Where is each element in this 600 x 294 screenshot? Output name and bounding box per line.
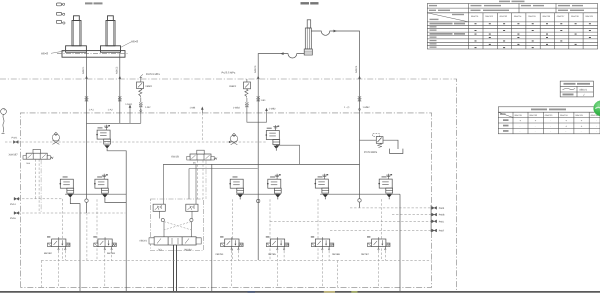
svg-text:P60L: P60L [439,220,445,223]
svg-text:00M/T05: 00M/T05 [528,15,535,18]
svg-text:-: - [550,130,551,133]
svg-text:1-A2: 1-A2 [108,109,114,112]
svg-text:6B/TB3: 6B/TB3 [107,252,116,255]
svg-text:1-MB: 1-MB [190,106,196,109]
svg-text:00M/T01: 00M/T01 [515,114,522,117]
svg-text:1-MB2: 1-MB2 [233,106,241,109]
svg-text:0B/7B7: 0B/7B7 [361,253,370,256]
svg-text:P4A1: P4A1 [12,136,19,139]
svg-text:X6B01: X6B01 [145,85,153,88]
svg-text:1-MB2: 1-MB2 [269,108,277,111]
svg-text:(B): (B) [193,161,196,164]
svg-text:00M/T06: 00M/T06 [543,15,550,18]
svg-text:A6×8: A6×8 [131,40,138,44]
svg-text:-: - [565,130,566,133]
svg-text:-: - [550,120,551,123]
svg-text:0B/7B5: 0B/7B5 [268,253,277,256]
svg-text:00M/T02: 00M/T02 [485,15,492,18]
svg-text:JY3: JY3 [158,248,163,251]
svg-text:-: - [581,130,582,133]
svg-text:00M/T02: 00M/T02 [530,114,537,117]
svg-text:-: - [596,120,597,123]
svg-text:A04C1: A04C1 [82,66,85,74]
svg-text:0B/7B4: 0B/7B4 [216,253,225,256]
svg-text:X6B02: X6B02 [229,85,237,88]
svg-text:00M/T05: 00M/T05 [575,114,582,117]
svg-text:P5A5: P5A5 [10,217,17,220]
svg-text:-: - [596,130,597,133]
svg-text:00M/T04: 00M/T04 [514,15,521,18]
svg-text:1 - (1: 1 - (1 [344,106,350,109]
svg-text:P605: P605 [439,207,445,210]
svg-text:00M/T04: 00M/T04 [560,114,567,117]
svg-text:A04C3: A04C3 [254,65,257,73]
svg-text:XW/1B: XW/1B [171,155,179,158]
svg-text:-: - [550,125,551,128]
svg-text:-: - [520,130,521,133]
svg-text:P607: P607 [439,230,445,233]
svg-text:A6×8: A6×8 [41,52,48,56]
svg-text:00M/T08: 00M/T08 [571,15,578,18]
svg-text:XW/1B7: XW/1B7 [9,153,19,156]
svg-text:P≤25.5 MPa: P≤25.5 MPa [222,72,236,75]
svg-text:P=25.5MPa: P=25.5MPa [364,151,378,154]
svg-text:00M/T09: 00M/T09 [585,15,592,18]
svg-text:1-M2: 1-M2 [145,106,151,109]
svg-text:1-MA1: 1-MA1 [125,103,133,106]
svg-text:-: - [596,125,597,128]
svg-text:0B/2B2: 0B/2B2 [184,248,193,251]
svg-text:P5A1: P5A1 [10,203,17,206]
svg-text:8B/1B2: 8B/1B2 [44,252,53,255]
svg-text:-: - [535,125,536,128]
svg-text:1-MB2: 1-MB2 [363,106,371,109]
svg-text:A04C4: A04C4 [355,65,358,73]
svg-text:A04C2: A04C2 [116,66,119,74]
svg-text:P60B: P60B [439,214,445,217]
svg-text:00M/T03: 00M/T03 [500,15,507,18]
svg-text:0B/1B6: 0B/1B6 [332,253,341,256]
svg-text:-: - [535,130,536,133]
svg-text:P≤25.5 MPa: P≤25.5 MPa [146,73,160,76]
svg-text:8B/101: 8B/101 [580,89,588,92]
svg-text:-: - [520,125,521,128]
svg-text:0B/201: 0B/201 [140,239,148,242]
svg-text:00M/T07: 00M/T07 [557,15,564,18]
svg-text:1-B1: 1-B1 [261,99,267,102]
svg-text:1-A1: 1-A1 [89,109,95,112]
svg-text:00M/T03: 00M/T03 [545,114,552,117]
svg-text:00M/T01: 00M/T01 [471,15,478,18]
